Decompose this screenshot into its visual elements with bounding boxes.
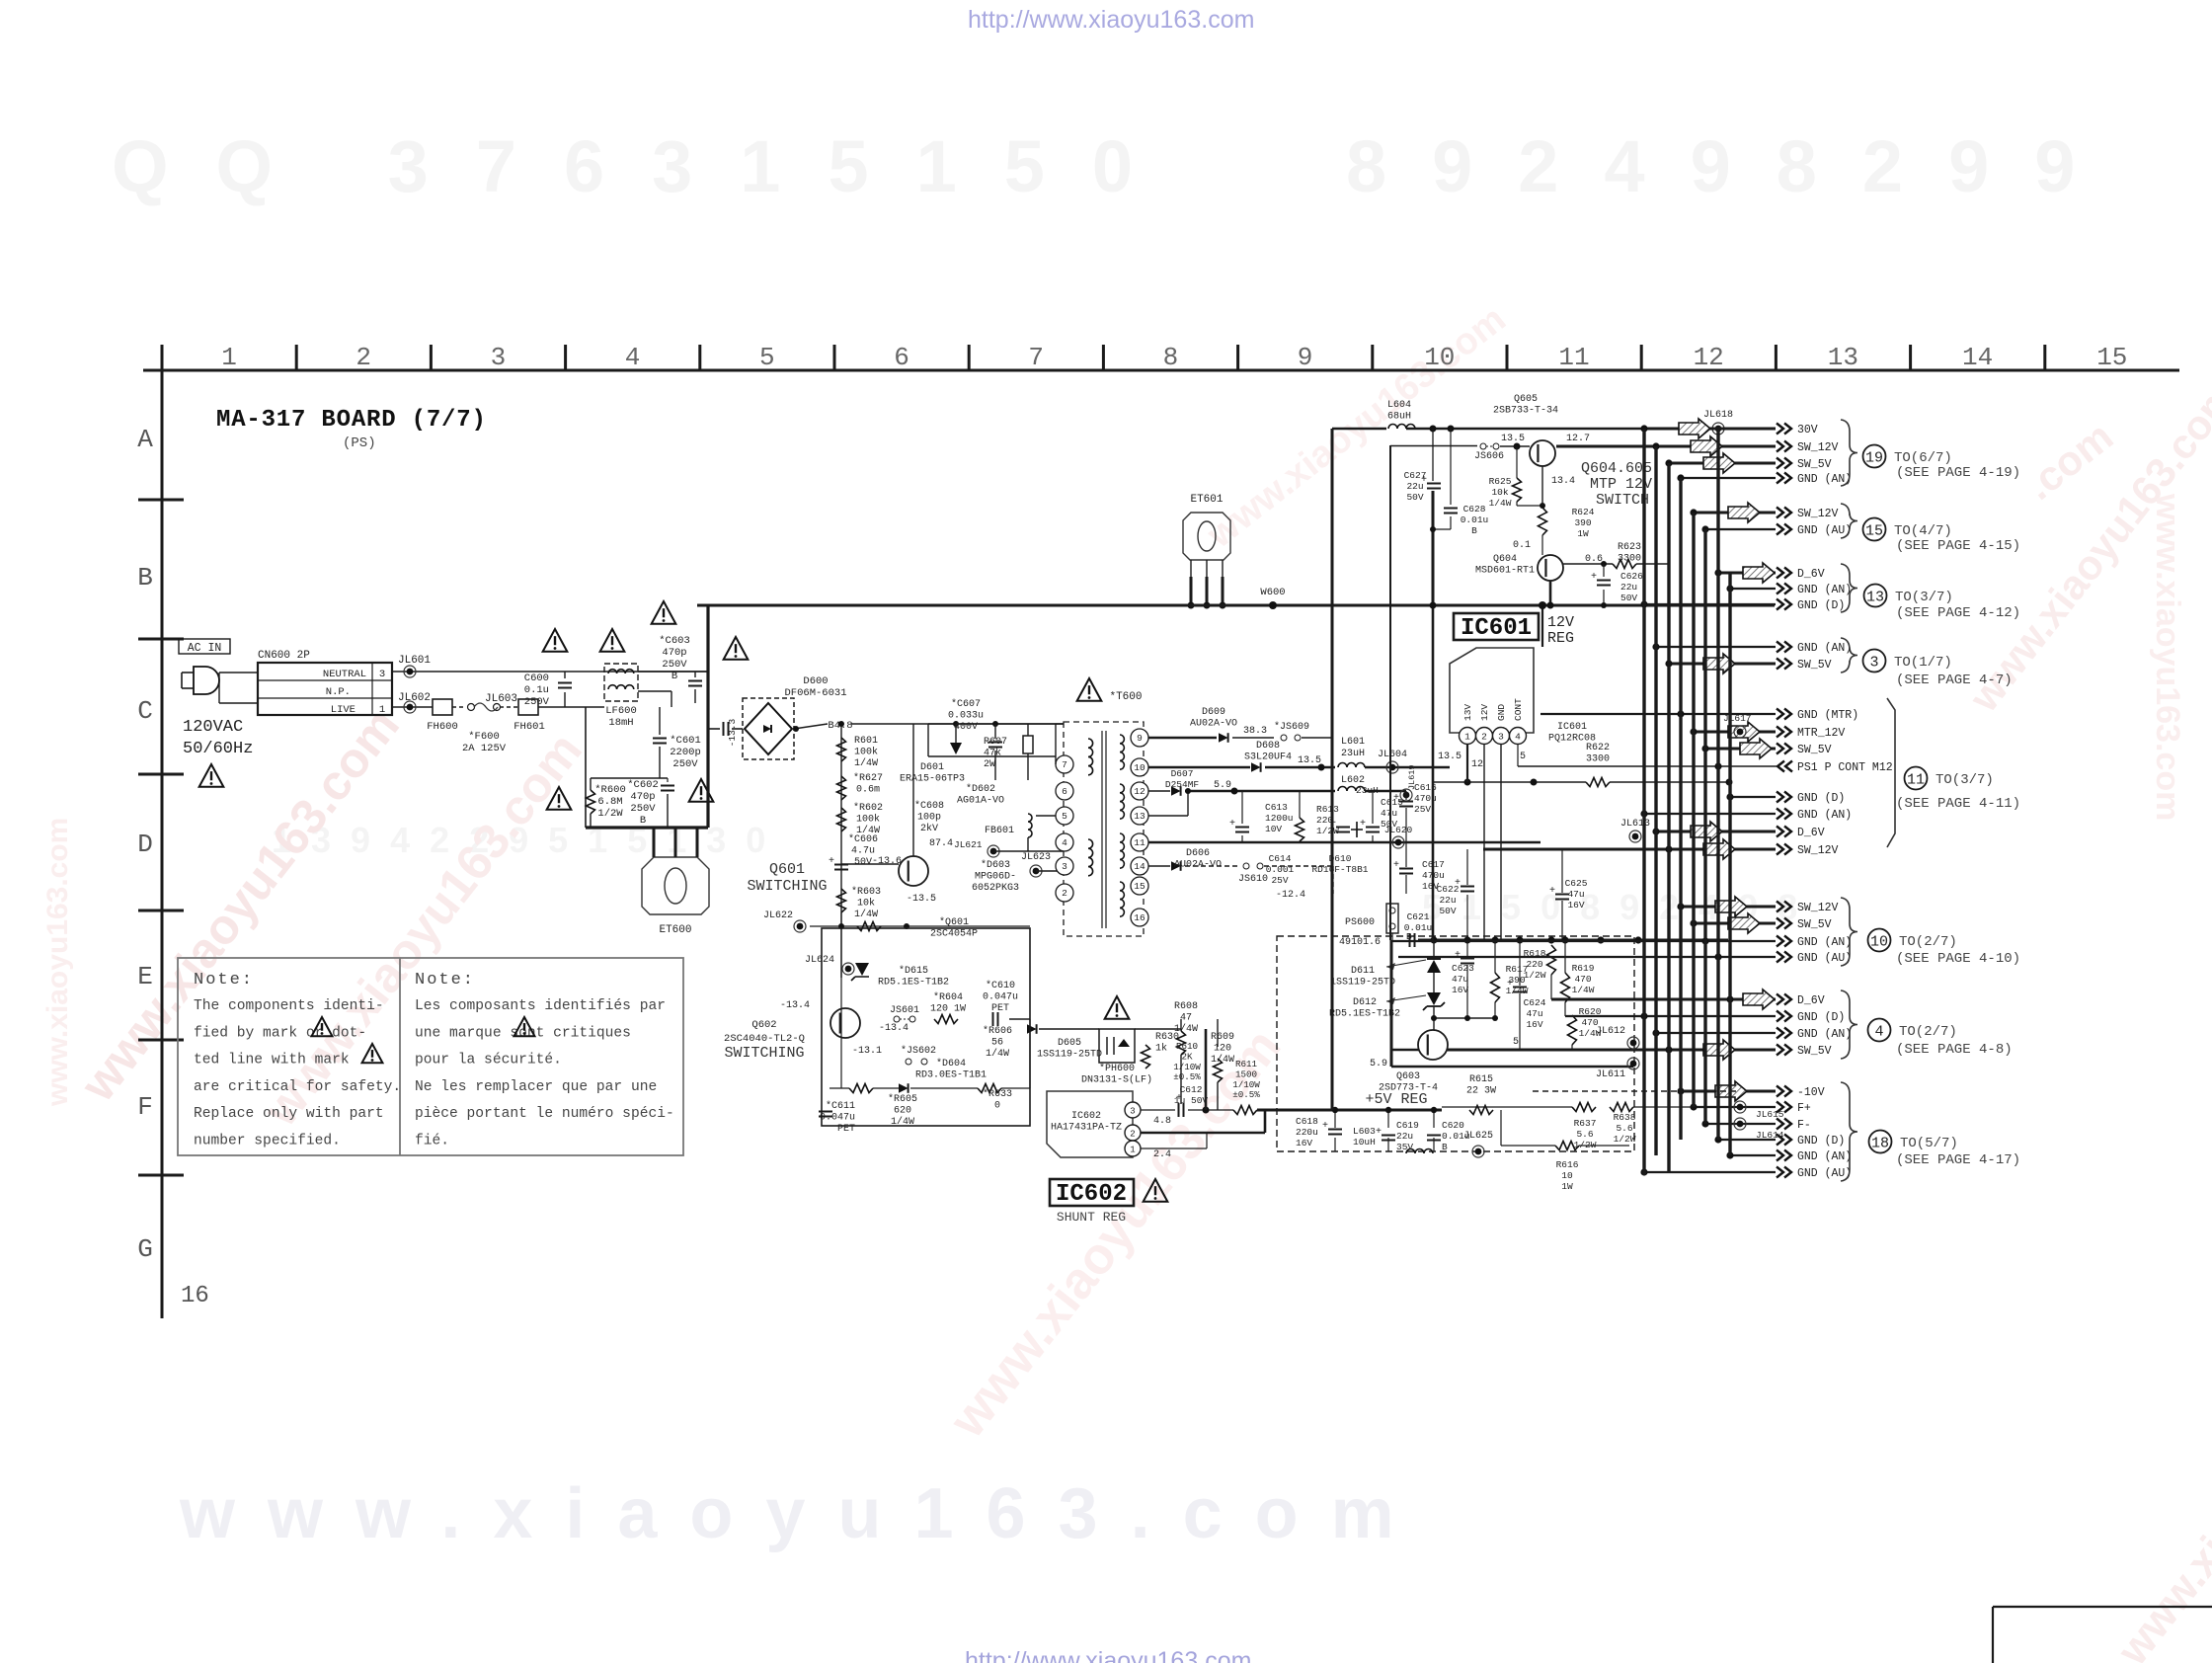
svg-text:250V: 250V (630, 803, 656, 815)
svg-text:SW_5V: SW_5V (1797, 744, 1832, 756)
svg-text:R608: R608 (1174, 1001, 1198, 1012)
svg-text:GND (AU): GND (AU) (1797, 952, 1852, 965)
svg-text:S3L20UF4: S3L20UF4 (1244, 752, 1292, 763)
svg-text:R622: R622 (1586, 743, 1610, 753)
svg-text:5.9: 5.9 (1214, 780, 1231, 791)
svg-text:D_6V: D_6V (1797, 827, 1825, 839)
svg-text:2: 2 (1481, 732, 1487, 743)
svg-text:TO(6/7): TO(6/7) (1894, 450, 1952, 466)
svg-text:100k: 100k (856, 814, 880, 826)
svg-text:D608: D608 (1256, 741, 1280, 752)
svg-text:JL604: JL604 (1378, 750, 1407, 760)
svg-text:1W: 1W (1561, 1181, 1573, 1192)
svg-text:R616: R616 (1556, 1159, 1579, 1170)
svg-text:13.5: 13.5 (1298, 755, 1321, 766)
svg-text:TO(2/7): TO(2/7) (1899, 1024, 1957, 1040)
svg-text:*C601: *C601 (670, 735, 701, 747)
svg-text:R611: R611 (1235, 1059, 1258, 1069)
svg-text:PET: PET (837, 1124, 855, 1135)
svg-text:4.7u: 4.7u (851, 846, 875, 857)
svg-text:+: + (1549, 886, 1555, 897)
svg-text:fied by mark or dot-: fied by mark or dot- (194, 1025, 366, 1041)
svg-text:4.8: 4.8 (1153, 1116, 1171, 1127)
svg-text:1W: 1W (1577, 528, 1589, 539)
svg-text:JS610: JS610 (1238, 874, 1268, 885)
svg-text:1/4W: 1/4W (854, 757, 878, 769)
svg-text:5: 5 (1513, 1037, 1519, 1048)
svg-text:N.P.: N.P. (326, 686, 351, 698)
svg-text:B: B (1471, 525, 1477, 536)
svg-text:SWITCH: SWITCH (1596, 492, 1649, 509)
svg-text:*C611: *C611 (826, 1100, 855, 1112)
svg-text:JL620: JL620 (1384, 825, 1413, 835)
svg-text:49101.6: 49101.6 (1339, 937, 1381, 948)
svg-text:TO(2/7): TO(2/7) (1899, 934, 1957, 950)
svg-text:FH600: FH600 (427, 721, 458, 733)
svg-text:Q601: Q601 (769, 861, 805, 878)
svg-text:220u: 220u (1296, 1127, 1318, 1138)
svg-text:470: 470 (1574, 974, 1591, 985)
svg-text:250V: 250V (672, 758, 698, 770)
svg-text:15: 15 (1865, 522, 1883, 539)
svg-text:-13.4: -13.4 (780, 1000, 810, 1011)
svg-text:+: + (829, 856, 834, 867)
svg-text:50V: 50V (1406, 492, 1423, 503)
svg-text:IC602: IC602 (1056, 1181, 1127, 1208)
svg-text:400V: 400V (954, 722, 978, 733)
svg-text:5.9: 5.9 (1370, 1059, 1387, 1069)
svg-text:D_6V: D_6V (1797, 568, 1825, 581)
svg-text:JL601: JL601 (398, 655, 431, 667)
svg-text:JL624: JL624 (805, 955, 834, 966)
svg-text:2.4: 2.4 (1153, 1149, 1171, 1160)
svg-text:+: + (1507, 979, 1513, 990)
svg-text:1/10W: 1/10W (1173, 1062, 1201, 1072)
svg-text:16V: 16V (1526, 1019, 1542, 1030)
svg-text:*D602: *D602 (966, 783, 995, 795)
svg-text:D: D (137, 830, 153, 859)
svg-text:470p: 470p (662, 647, 686, 659)
svg-text:TO(1/7): TO(1/7) (1894, 655, 1952, 671)
svg-text:MSD601-RT1: MSD601-RT1 (1475, 566, 1535, 577)
svg-text:5: 5 (1520, 752, 1526, 762)
svg-text:pièce portant le numéro spéci-: pièce portant le numéro spéci- (415, 1106, 674, 1122)
svg-text:3300: 3300 (1586, 754, 1610, 765)
svg-text:100p: 100p (917, 813, 941, 824)
svg-text:*C608: *C608 (914, 800, 944, 812)
svg-text:*F600: *F600 (468, 731, 500, 743)
svg-text:Q604.605: Q604.605 (1581, 460, 1652, 477)
svg-text:0: 0 (994, 1101, 1000, 1112)
svg-text:*R600: *R600 (594, 784, 626, 796)
svg-text:MA-317 BOARD (7/7): MA-317 BOARD (7/7) (216, 407, 487, 434)
svg-text:(SEE PAGE 4-15): (SEE PAGE 4-15) (1896, 538, 2020, 554)
svg-text:+: + (1229, 819, 1235, 830)
svg-text:2SC4054P: 2SC4054P (930, 929, 978, 940)
svg-text:10k: 10k (1491, 487, 1508, 498)
svg-text:120VAC: 120VAC (183, 718, 243, 737)
svg-text:2SB733-T-34: 2SB733-T-34 (1493, 406, 1558, 417)
svg-text:50/60Hz: 50/60Hz (183, 740, 253, 758)
svg-text:1/4W: 1/4W (1572, 985, 1595, 995)
svg-text:B: B (640, 815, 646, 827)
svg-text:GND (D): GND (D) (1797, 1011, 1845, 1024)
svg-text:47u: 47u (1381, 808, 1397, 819)
svg-text:R610: R610 (1176, 1041, 1198, 1052)
svg-text:16V: 16V (1296, 1138, 1312, 1148)
svg-text:+: + (1322, 1121, 1328, 1132)
svg-text:PS1 P CONT M12: PS1 P CONT M12 (1797, 761, 1893, 774)
svg-text:Q605: Q605 (1514, 394, 1538, 405)
svg-text:13V: 13V (1462, 704, 1473, 721)
svg-text:GND: GND (1496, 704, 1507, 721)
svg-text:number specified.: number specified. (194, 1134, 341, 1149)
svg-text:D612: D612 (1353, 997, 1377, 1008)
svg-text:4: 4 (1515, 732, 1521, 743)
svg-text:une marque sont critiques: une marque sont critiques (415, 1025, 631, 1041)
svg-text:11: 11 (1134, 837, 1145, 848)
svg-text:±0.5%: ±0.5% (1173, 1071, 1201, 1082)
svg-text:1/2W: 1/2W (1524, 970, 1546, 981)
svg-text:D601: D601 (920, 762, 944, 773)
svg-text:GND (AN): GND (AN) (1797, 936, 1852, 949)
svg-text:(SEE PAGE 4-8): (SEE PAGE 4-8) (1896, 1042, 2013, 1058)
svg-text:0.033u: 0.033u (948, 711, 984, 722)
svg-text:(PS): (PS) (343, 436, 376, 451)
svg-text:SWITCHING: SWITCHING (747, 878, 827, 895)
svg-text:JL603: JL603 (485, 693, 517, 705)
svg-text:3: 3 (379, 669, 385, 680)
svg-text:JL614: JL614 (1756, 1130, 1784, 1141)
svg-text:0.1: 0.1 (1513, 540, 1531, 551)
svg-text:TO(4/7): TO(4/7) (1894, 523, 1952, 539)
svg-text:1k: 1k (1155, 1043, 1167, 1055)
svg-text:5: 5 (1062, 811, 1067, 822)
svg-text:13: 13 (1134, 811, 1145, 822)
svg-text:JL622: JL622 (763, 911, 793, 921)
svg-text:7: 7 (1062, 759, 1067, 770)
svg-text:HA17431PA-TZ: HA17431PA-TZ (1051, 1123, 1122, 1134)
svg-text:47u: 47u (1567, 889, 1584, 900)
svg-text:38.3: 38.3 (1243, 726, 1267, 737)
svg-text:10: 10 (1561, 1170, 1573, 1181)
svg-text:3: 3 (1062, 861, 1067, 872)
svg-text:13: 13 (1866, 589, 1884, 605)
svg-text:The components identi-: The components identi- (194, 998, 384, 1014)
svg-text:ted line with mark: ted line with mark (194, 1053, 350, 1069)
svg-text:87.4: 87.4 (929, 838, 953, 849)
svg-text:390: 390 (1574, 517, 1591, 528)
svg-text:R619: R619 (1572, 963, 1595, 974)
svg-text:1/4W: 1/4W (854, 909, 878, 920)
svg-text:DN3131-S(LF): DN3131-S(LF) (1081, 1074, 1152, 1086)
svg-text:B: B (137, 563, 153, 593)
svg-text:-13.6: -13.6 (872, 856, 902, 867)
svg-text:22u: 22u (1439, 895, 1456, 906)
svg-text:250V: 250V (662, 659, 687, 671)
svg-text:10V: 10V (1265, 824, 1282, 834)
svg-text:IC601: IC601 (1557, 722, 1587, 733)
svg-text:23uH: 23uH (1341, 749, 1365, 759)
svg-text:R625: R625 (1489, 476, 1512, 487)
svg-text:C613: C613 (1265, 802, 1288, 813)
svg-text:CN600 2P: CN600 2P (258, 650, 310, 662)
svg-text:1SS119-25TD: 1SS119-25TD (1330, 978, 1395, 989)
svg-text:SWITCHING: SWITCHING (724, 1045, 804, 1062)
svg-text:L601: L601 (1341, 737, 1365, 748)
svg-text:22u: 22u (1396, 1131, 1413, 1142)
svg-text:Replace only with part: Replace only with part (194, 1106, 384, 1122)
svg-text:*C606: *C606 (848, 833, 878, 845)
svg-text:MTR_12V: MTR_12V (1797, 727, 1845, 740)
svg-text:RD5.1ES-T1B2: RD5.1ES-T1B2 (1329, 1009, 1400, 1020)
svg-text:D_6V: D_6V (1797, 994, 1825, 1007)
svg-text:JL625: JL625 (1463, 1131, 1493, 1142)
svg-text:+: + (1421, 475, 1427, 486)
svg-text:*R606: *R606 (983, 1025, 1012, 1037)
svg-text:+5V REG: +5V REG (1365, 1091, 1427, 1108)
svg-text:12: 12 (1471, 759, 1483, 770)
svg-text:10: 10 (1134, 762, 1145, 773)
svg-text:+: + (1455, 878, 1461, 889)
svg-text:4: 4 (1874, 1023, 1883, 1040)
svg-text:fié.: fié. (415, 1134, 449, 1149)
svg-text:ET600: ET600 (659, 924, 691, 936)
svg-text:IC602: IC602 (1071, 1111, 1101, 1122)
svg-text:120 1W: 120 1W (930, 1004, 966, 1015)
svg-text:1/4W: 1/4W (1211, 1054, 1234, 1066)
svg-text:*PH600: *PH600 (1099, 1063, 1135, 1074)
svg-text:4: 4 (1062, 837, 1067, 848)
svg-text:11: 11 (1558, 343, 1589, 372)
svg-text:+: + (1455, 950, 1461, 961)
svg-text:*JS609: *JS609 (1274, 721, 1309, 733)
svg-text:25V: 25V (1414, 804, 1431, 815)
svg-text:+: + (1376, 1127, 1382, 1138)
svg-text:NEUTRAL: NEUTRAL (323, 669, 366, 680)
svg-text:10uH: 10uH (1353, 1137, 1376, 1148)
svg-text:ERA15-06TP3: ERA15-06TP3 (900, 774, 965, 785)
svg-text:47u: 47u (1452, 974, 1468, 985)
svg-text:13.4: 13.4 (1551, 476, 1575, 487)
svg-text:+: + (1360, 819, 1366, 830)
svg-text:18mH: 18mH (608, 717, 633, 729)
svg-text:SW_5V: SW_5V (1797, 659, 1832, 672)
svg-text:14: 14 (1134, 861, 1145, 872)
svg-text:4: 4 (625, 343, 641, 372)
svg-text:*R604: *R604 (933, 991, 963, 1003)
svg-text:GND (MTR): GND (MTR) (1797, 709, 1858, 722)
svg-text:*T600: *T600 (1109, 691, 1142, 703)
svg-text:0.6m: 0.6m (856, 785, 880, 796)
svg-text:1/4W: 1/4W (986, 1048, 1009, 1060)
svg-text:D605: D605 (1058, 1038, 1081, 1049)
svg-text:MPG06D-: MPG06D- (975, 872, 1016, 883)
svg-text:*C602: *C602 (627, 779, 659, 791)
svg-text:RD3.0ES-T1B1: RD3.0ES-T1B1 (915, 1070, 987, 1081)
svg-text:56: 56 (991, 1038, 1003, 1049)
svg-text:C612: C612 (1180, 1084, 1203, 1095)
svg-text:6052PKG3: 6052PKG3 (972, 883, 1019, 894)
svg-text:FB601: FB601 (985, 826, 1014, 836)
svg-text:C625: C625 (1565, 878, 1588, 889)
svg-text:1: 1 (379, 704, 385, 716)
svg-text:0.1u: 0.1u (524, 684, 549, 696)
svg-text:D609: D609 (1202, 707, 1225, 718)
svg-text:±0.5%: ±0.5% (1232, 1089, 1260, 1100)
svg-text:D600: D600 (803, 675, 828, 687)
svg-text:SW_12V: SW_12V (1797, 508, 1839, 520)
svg-text:JL621: JL621 (954, 839, 983, 850)
svg-text:C626: C626 (1620, 571, 1643, 582)
svg-text:1/10W: 1/10W (1232, 1079, 1260, 1090)
svg-text:SW_12V: SW_12V (1797, 441, 1839, 454)
svg-text:2A 125V: 2A 125V (462, 743, 507, 754)
svg-text:C628: C628 (1463, 504, 1486, 515)
svg-text:1SS119-25TD: 1SS119-25TD (1037, 1050, 1102, 1061)
svg-text:2W: 2W (984, 759, 995, 770)
svg-text:SW_12V: SW_12V (1797, 844, 1839, 857)
svg-text:D606: D606 (1186, 848, 1210, 859)
svg-text:1500: 1500 (1235, 1069, 1257, 1079)
svg-text:1: 1 (221, 343, 237, 372)
svg-text:F: F (137, 1092, 153, 1122)
svg-text:PS600: PS600 (1345, 917, 1375, 928)
svg-text:R601: R601 (854, 736, 878, 747)
svg-text:1/4W: 1/4W (891, 1116, 914, 1128)
svg-text:8: 8 (1163, 343, 1179, 372)
svg-text:25V: 25V (1271, 875, 1288, 886)
svg-text:3: 3 (491, 343, 507, 372)
svg-text:SW_5V: SW_5V (1797, 918, 1832, 931)
svg-text:GND (AN): GND (AN) (1797, 809, 1852, 822)
svg-text:LIVE: LIVE (331, 704, 355, 716)
svg-text:GND (D): GND (D) (1797, 792, 1845, 805)
svg-text:2: 2 (355, 343, 371, 372)
svg-text:-12.4: -12.4 (1276, 890, 1305, 901)
svg-text:JL611: JL611 (1596, 1069, 1625, 1080)
svg-text:100k: 100k (854, 747, 878, 758)
svg-text:JL617: JL617 (1723, 713, 1752, 724)
svg-text:TO(3/7): TO(3/7) (1935, 772, 1994, 788)
svg-text:*D604: *D604 (936, 1058, 966, 1069)
svg-text:SHUNT REG: SHUNT REG (1057, 1210, 1126, 1225)
svg-text:10k: 10k (857, 898, 875, 910)
svg-text:5: 5 (759, 343, 775, 372)
svg-text:10: 10 (1870, 933, 1888, 950)
svg-text:*R605: *R605 (888, 1093, 917, 1105)
svg-text:C619: C619 (1396, 1120, 1419, 1131)
svg-text:5.6: 5.6 (1576, 1129, 1593, 1140)
svg-text:GND (AN): GND (AN) (1797, 1028, 1852, 1041)
svg-text:GND (AN): GND (AN) (1797, 642, 1852, 655)
svg-text:JL623: JL623 (1021, 852, 1051, 863)
svg-text:16V: 16V (1452, 985, 1468, 995)
svg-text:W600: W600 (1260, 587, 1285, 598)
svg-text:620: 620 (894, 1106, 911, 1117)
svg-text:B: B (1442, 1142, 1448, 1152)
svg-text:G: G (137, 1234, 153, 1264)
svg-text:R624: R624 (1572, 507, 1595, 517)
svg-text:GND (D): GND (D) (1797, 1135, 1845, 1148)
svg-text:2K: 2K (1181, 1051, 1193, 1062)
svg-text:DF06M-6031: DF06M-6031 (784, 687, 846, 699)
svg-text:*R602: *R602 (853, 802, 883, 814)
svg-text:220: 220 (1526, 959, 1542, 970)
svg-text:5.6: 5.6 (1616, 1123, 1632, 1134)
svg-text:pour la sécurité.: pour la sécurité. (415, 1053, 562, 1069)
svg-text:LF600: LF600 (605, 705, 637, 717)
svg-text:15: 15 (2096, 343, 2127, 372)
svg-text:RD5.1ES-T1B2: RD5.1ES-T1B2 (878, 978, 949, 989)
svg-text:1/2W: 1/2W (597, 808, 623, 820)
svg-text:*C610: *C610 (986, 980, 1015, 991)
svg-text:R607: R607 (984, 737, 1007, 748)
svg-text:JL612: JL612 (1596, 1026, 1625, 1037)
svg-text:TO(3/7): TO(3/7) (1895, 590, 1953, 605)
svg-text:(SEE PAGE 4-11): (SEE PAGE 4-11) (1896, 796, 2020, 812)
svg-text:47u: 47u (1526, 1008, 1542, 1019)
svg-text:(SEE PAGE 4-10): (SEE PAGE 4-10) (1896, 951, 2020, 967)
svg-text:3: 3 (1869, 654, 1878, 671)
svg-text:470p: 470p (630, 791, 655, 803)
svg-text:C621: C621 (1407, 911, 1430, 922)
svg-text:*JS602: *JS602 (901, 1045, 936, 1057)
svg-text:AC IN: AC IN (188, 642, 222, 655)
svg-text:12.7: 12.7 (1566, 434, 1590, 444)
svg-text:30V: 30V (1797, 424, 1818, 436)
svg-text:R609: R609 (1211, 1032, 1234, 1043)
svg-text:SW_12V: SW_12V (1797, 902, 1839, 914)
svg-text:GND (AN): GND (AN) (1797, 1150, 1852, 1163)
svg-text:9: 9 (1298, 343, 1313, 372)
svg-text:22u: 22u (1620, 582, 1637, 593)
svg-text:0.047u: 0.047u (820, 1113, 855, 1124)
svg-text:*C603: *C603 (659, 635, 690, 647)
svg-text:16: 16 (181, 1283, 209, 1309)
svg-text:C: C (137, 696, 153, 726)
svg-text:*R633: *R633 (983, 1088, 1012, 1100)
svg-text:50V: 50V (1439, 906, 1456, 916)
svg-text:12: 12 (1134, 786, 1145, 797)
svg-text:D254MF: D254MF (1165, 779, 1200, 790)
svg-text:GND (AU): GND (AU) (1797, 1167, 1852, 1180)
svg-text:Q603: Q603 (1396, 1071, 1420, 1082)
svg-text:AU02A-VO: AU02A-VO (1190, 719, 1237, 730)
svg-text:1: 1 (1464, 732, 1470, 743)
svg-text:R638: R638 (1614, 1112, 1636, 1123)
svg-text:JL613: JL613 (1620, 819, 1650, 830)
svg-text:*R603: *R603 (851, 886, 881, 898)
svg-text:+: + (1393, 793, 1399, 804)
svg-text:0.047u: 0.047u (983, 992, 1018, 1003)
svg-text:E: E (137, 962, 153, 991)
svg-text:D607: D607 (1171, 768, 1194, 779)
svg-text:JL618: JL618 (1703, 410, 1733, 421)
svg-text:10: 10 (1424, 343, 1455, 372)
svg-text:SW_5V: SW_5V (1797, 1045, 1832, 1058)
svg-text:14: 14 (1962, 343, 1993, 372)
svg-text:47: 47 (1180, 1013, 1192, 1024)
svg-text:JS606: JS606 (1474, 451, 1504, 462)
svg-text:Note:: Note: (415, 971, 475, 990)
svg-text:6.8M: 6.8M (597, 796, 622, 808)
svg-text:1: 1 (1130, 1145, 1135, 1154)
svg-text:-13.1: -13.1 (852, 1046, 882, 1057)
svg-text:C623: C623 (1452, 963, 1474, 974)
svg-text:2: 2 (1062, 888, 1067, 899)
svg-text:-10V: -10V (1797, 1086, 1825, 1099)
